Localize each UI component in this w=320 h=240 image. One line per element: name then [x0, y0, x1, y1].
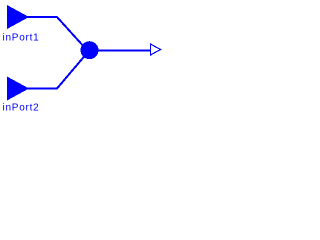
junction node: [81, 41, 99, 59]
wire from inPort2 to junction: [26, 50, 90, 88]
wire from inPort1 to junction: [26, 17, 86, 49]
input connector inPort1: [7, 5, 29, 29]
svg-text:inPort2: inPort2: [3, 103, 40, 114]
input connector inPort2: [7, 77, 29, 101]
wire from junction to output: [95, 50, 151, 52]
output connector: [151, 44, 161, 55]
svg-text:inPort1: inPort1: [3, 33, 40, 44]
